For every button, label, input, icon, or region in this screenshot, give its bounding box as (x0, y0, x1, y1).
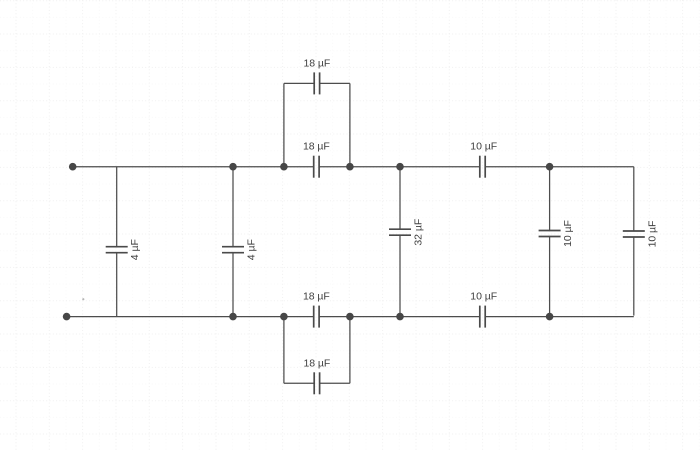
junction: bottom rail at second 4 µF branch (229, 313, 237, 321)
capacitor 10 µF (right inner branch) with value label (539, 230, 561, 232)
junction: bottom rail at bottom loop right (346, 313, 354, 321)
wire: first 10 µF branch, lower segment (549, 237, 551, 317)
wire: bottom loop right vertical (349, 317, 351, 384)
capacitor 10 µF (bottom rail) with value label (479, 306, 481, 328)
capacitor 18 µF (bottom rail) with value label (313, 306, 315, 328)
capacitor 10 µF (right edge branch) with value label (623, 230, 645, 232)
stray ink speck (82, 298, 84, 300)
wire: top rail, middle segment (319, 166, 480, 168)
junction: bottom rail at 32 µF branch (396, 313, 404, 321)
svg-text:10 µF: 10 µF (562, 220, 574, 247)
wire: bottom loop left vertical (283, 317, 285, 384)
capacitor 10 µF (top rail) with value label (479, 156, 481, 178)
wire: bottom loop horizontal, left part (284, 382, 314, 384)
junction: top rail at top loop left (280, 163, 288, 171)
wire: right edge branch, upper segment (633, 167, 635, 231)
wire: bottom rail, right segment (485, 316, 634, 318)
wire: top loop horizontal, right part (320, 82, 350, 84)
svg-text:32 µF: 32 µF (413, 219, 425, 246)
wire: first 4 µF branch, lower segment (116, 253, 118, 317)
junction: top rail at top loop right (346, 163, 354, 171)
wire: right edge branch, lower segment (633, 237, 635, 316)
capacitor 18 µF (top rail) with value label (313, 156, 315, 178)
wire: top loop right vertical (349, 83, 351, 166)
wire: first 4 µF branch, upper segment (116, 167, 118, 247)
junction: top rail at first 10 µF branch (546, 163, 554, 171)
svg-text:18 µF: 18 µF (303, 141, 330, 153)
wire: bottom rail, left segment (67, 316, 314, 318)
svg-text:4 µF: 4 µF (129, 239, 141, 260)
wire: top loop left vertical (283, 83, 285, 166)
svg-text:10 µF: 10 µF (470, 291, 497, 303)
wire: 32 µF branch, upper segment (399, 167, 401, 230)
wire: second 4 µF branch, lower segment (232, 253, 234, 317)
svg-text:4 µF: 4 µF (246, 239, 258, 260)
capacitor 18 µF (top parallel loop) with value label (313, 72, 315, 94)
svg-text:10 µF: 10 µF (470, 141, 497, 153)
capacitor 32 µF (middle branch) with value label (389, 228, 411, 230)
junction: top rail at 32 µF branch (396, 163, 404, 171)
wire: bottom loop horizontal, right part (320, 382, 350, 384)
wire: bottom rail, middle segment (319, 316, 480, 318)
svg-text:10 µF: 10 µF (646, 221, 658, 248)
wire: second 4 µF branch, upper segment (232, 167, 234, 247)
svg-text:18 µF: 18 µF (303, 357, 330, 369)
capacitor 4 µF (second left branch) with value label (222, 246, 244, 248)
node: left terminal of bottom rail (63, 313, 71, 321)
wire: top loop horizontal, left part (284, 82, 314, 84)
svg-text:18 µF: 18 µF (303, 57, 330, 69)
svg-text:18 µF: 18 µF (303, 291, 330, 303)
wire: first 10 µF branch, upper segment (549, 167, 551, 231)
junction: top rail at second 4 µF branch (229, 163, 237, 171)
wire: 32 µF branch, lower segment (399, 235, 401, 316)
junction: bottom rail at first 10 µF branch (546, 313, 554, 321)
node: left terminal of top rail (69, 163, 77, 171)
capacitor 4 µF (first left branch) with value label (106, 246, 128, 248)
wire: top rail, right segment (485, 166, 634, 168)
junction: bottom rail at bottom loop left (280, 313, 288, 321)
wire: top rail, left segment (73, 166, 314, 168)
capacitor 18 µF (bottom parallel loop) with value label (313, 372, 315, 394)
